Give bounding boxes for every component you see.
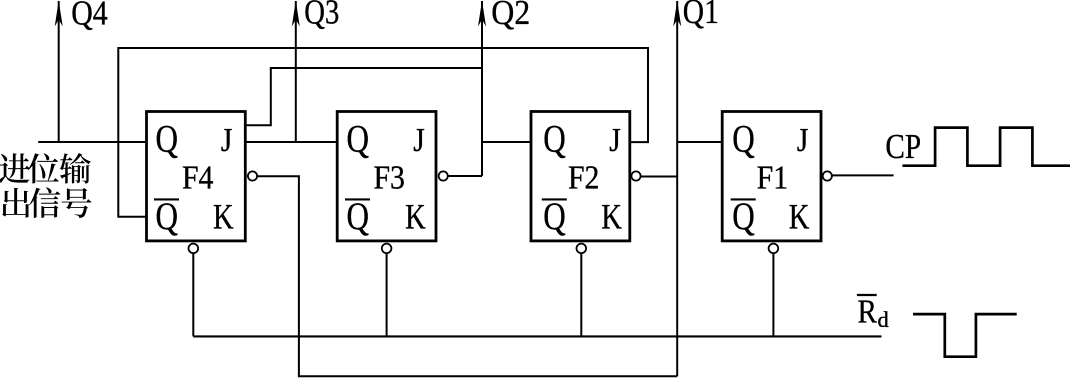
svg-text:Q3: Q3 bbox=[304, 0, 339, 32]
svg-text:R: R bbox=[858, 293, 878, 330]
F2 reset input bubble bbox=[577, 244, 587, 254]
F3 clock input bubble bbox=[439, 171, 448, 180]
svg-text:J: J bbox=[609, 122, 621, 159]
svg-text:J: J bbox=[221, 122, 233, 159]
wire F4 Qbar feedback to F2 J bbox=[118, 48, 648, 217]
wire F4 J input from Q2 bbox=[245, 68, 482, 125]
wire F3 clock from Q2 bbox=[448, 175, 482, 177]
wire F3 Q to F4 J region (Q3 node) bbox=[245, 141, 337, 143]
F4 reset input bubble bbox=[189, 244, 199, 254]
svg-text:Q: Q bbox=[156, 118, 179, 161]
label carry output signal (Chinese) bbox=[0, 153, 30, 183]
wire F2 clock from Q1 bbox=[641, 176, 678, 178]
flip-flop F1 body bbox=[722, 112, 821, 241]
svg-text:K: K bbox=[213, 196, 234, 236]
wire F1 reset to Rd line bbox=[772, 253, 774, 336]
F1 clock input bubble bbox=[823, 171, 832, 180]
svg-text:F4: F4 bbox=[182, 159, 214, 196]
svg-text:K: K bbox=[405, 196, 426, 236]
wire F2 reset to Rd line bbox=[580, 253, 582, 336]
output line Q4 with arrowhead bbox=[58, 1, 60, 142]
svg-text:K: K bbox=[601, 196, 622, 236]
wire F4 clock from Q1 via bottom bbox=[257, 176, 677, 376]
wire F4 reset to Rd line bbox=[192, 253, 194, 336]
F1 reset input bubble bbox=[769, 244, 779, 254]
svg-text:CP: CP bbox=[885, 127, 921, 166]
F3 reset input bubble bbox=[382, 244, 392, 254]
CP clock waveform bbox=[902, 128, 1070, 166]
svg-text:Q1: Q1 bbox=[683, 0, 719, 31]
F4 clock input bubble bbox=[248, 171, 257, 180]
svg-text:Q: Q bbox=[732, 118, 755, 161]
output line Q3 with arrowhead bbox=[295, 1, 297, 142]
wire carry output from F4 Q bbox=[38, 141, 146, 143]
flip-flop F4 body bbox=[147, 112, 246, 241]
svg-text:J: J bbox=[413, 122, 425, 159]
svg-text:Q: Q bbox=[543, 118, 566, 161]
wire F1 Q to Q1 node bbox=[677, 141, 722, 143]
flip-flop F2 body bbox=[531, 112, 630, 241]
svg-text:Q: Q bbox=[347, 118, 370, 161]
svg-text:K: K bbox=[789, 196, 810, 236]
svg-text:Q2: Q2 bbox=[491, 0, 530, 32]
svg-text:F2: F2 bbox=[568, 159, 600, 196]
wire Rd reset line bbox=[193, 335, 881, 337]
output line Q1 with arrowhead bbox=[676, 1, 678, 376]
wire F3 reset to Rd line bbox=[386, 253, 388, 336]
svg-text:Q4: Q4 bbox=[71, 0, 108, 32]
svg-text:J: J bbox=[797, 122, 809, 159]
svg-text:Q: Q bbox=[156, 195, 179, 238]
svg-text:F1: F1 bbox=[757, 159, 789, 196]
output line Q2 with arrowhead bbox=[481, 1, 483, 176]
svg-text:Q: Q bbox=[732, 195, 755, 238]
svg-text:F3: F3 bbox=[373, 159, 405, 196]
svg-text:Q: Q bbox=[543, 195, 566, 238]
svg-text:d: d bbox=[878, 307, 889, 332]
F2 clock input bubble bbox=[631, 171, 640, 180]
wire F1 clock CP input bbox=[832, 174, 894, 176]
Rd reset pulse waveform bbox=[913, 314, 1017, 357]
svg-text:Q: Q bbox=[347, 195, 370, 238]
wire F2 Q to Q2 node bbox=[482, 141, 531, 143]
flip-flop F3 body bbox=[337, 112, 436, 241]
